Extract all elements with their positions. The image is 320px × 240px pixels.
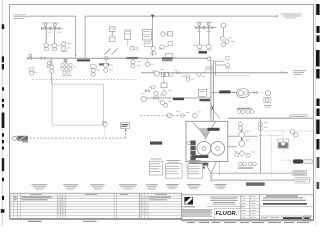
fluor logo diamond bbox=[184, 197, 193, 205]
wire flare header A bbox=[28, 15, 76, 17]
instrument C7 bbox=[162, 88, 166, 96]
pump package box bbox=[186, 121, 228, 161]
continuation label L2 bbox=[63, 184, 78, 189]
right edge mark 2 bbox=[316, 26, 319, 33]
continuation label L5 bbox=[146, 184, 158, 189]
label line2 dest bbox=[293, 70, 306, 75]
instrument box TB1 bbox=[109, 27, 115, 32]
diamond D4 bbox=[180, 113, 184, 117]
left edge mark 5 bbox=[2, 99, 4, 102]
actuator A2 bbox=[54, 24, 57, 29]
instrument circle TC1 bbox=[161, 32, 165, 36]
note box NB0 bbox=[150, 161, 163, 175]
instrument box TB2 bbox=[109, 37, 115, 42]
relay box TB7 bbox=[125, 30, 131, 39]
left edge mark 11 bbox=[2, 158, 4, 171]
right edge mark 3 bbox=[316, 36, 319, 43]
line break slash 1 bbox=[105, 48, 111, 54]
instrument C6 bbox=[145, 58, 149, 66]
continuation label L4 bbox=[119, 184, 137, 189]
instrument box SQ3 bbox=[264, 97, 271, 102]
tank T-1 bbox=[52, 84, 103, 125]
riser cross knot bbox=[211, 105, 220, 119]
instrument circle TC4 bbox=[160, 45, 164, 49]
instrument pair R3 bbox=[258, 122, 262, 130]
wire A stem1 bbox=[45, 30, 47, 43]
logo caption bbox=[183, 206, 195, 207]
label A2 bbox=[51, 22, 59, 25]
revision entry 2 bbox=[14, 199, 167, 200]
diamond R4b bbox=[239, 150, 245, 156]
left edge mark 7 bbox=[2, 113, 5, 129]
dashed riser D7 bbox=[125, 130, 127, 139]
instrument C9 bbox=[226, 63, 231, 68]
actuator B1 bbox=[198, 23, 201, 28]
note N1 text bbox=[14, 15, 29, 19]
manifold A pipe bbox=[41, 27, 63, 29]
label A3 bbox=[61, 50, 68, 53]
note box NB1 bbox=[165, 164, 182, 179]
dotted drop D11 bbox=[282, 131, 284, 153]
node circle N3 bbox=[169, 73, 173, 77]
riser pipe 1 bbox=[210, 60, 212, 121]
instrument FI-B2 bbox=[206, 44, 212, 50]
instrument pair C5 bbox=[131, 60, 135, 68]
revision entry 1 bbox=[14, 197, 171, 198]
instrument cluster R7 bbox=[278, 139, 289, 148]
faint line 2b bbox=[216, 75, 250, 77]
instrument box TB4 bbox=[144, 42, 152, 47]
dotted line D9 bbox=[259, 134, 283, 136]
margin text bottom-left bbox=[28, 221, 42, 222]
valve M7 bbox=[145, 86, 155, 92]
package drop bbox=[210, 172, 212, 181]
node J2 bbox=[105, 57, 108, 60]
dotted line D12 bbox=[281, 159, 293, 161]
node T1 bbox=[51, 58, 53, 84]
riser pipe 3 bbox=[215, 61, 217, 76]
right edge mark 6 bbox=[316, 99, 319, 107]
label box LB6a bbox=[173, 98, 184, 101]
label box LB5 bbox=[199, 51, 208, 53]
right edge mark 4 bbox=[316, 50, 320, 67]
suction line b bbox=[245, 135, 257, 137]
continuation label L1 bbox=[32, 184, 48, 189]
package funnel right bbox=[207, 121, 216, 135]
package nozzle circle bbox=[188, 142, 191, 145]
fluor cell borders bbox=[214, 209, 240, 221]
dashed line D6 bbox=[30, 137, 126, 139]
instrument box N1b bbox=[226, 57, 229, 60]
instrument cluster C3 bbox=[91, 65, 97, 77]
left edge mark 14 bbox=[1, 209, 5, 213]
right edge mark 7 bbox=[316, 109, 319, 117]
instrument pair C4 bbox=[104, 60, 108, 72]
label box BL2 bbox=[295, 178, 309, 183]
main header line 1 bbox=[28, 57, 208, 59]
bottom header 2 bbox=[211, 179, 295, 181]
wire B stem3 bbox=[223, 28, 225, 36]
note box NB2 header bbox=[189, 160, 201, 162]
header line 2 bbox=[141, 72, 288, 74]
suction line c bbox=[228, 146, 237, 148]
note box NB2 bbox=[188, 164, 203, 179]
note box NB0 header bbox=[151, 158, 162, 161]
instrument FI-A1 bbox=[44, 43, 48, 50]
valve A1 bbox=[41, 27, 45, 30]
riser pipe 2 bbox=[212, 60, 214, 121]
actuator B2 bbox=[207, 23, 210, 28]
vessel E1 bbox=[237, 89, 250, 98]
label box M6b bbox=[206, 67, 213, 70]
label B1 bbox=[196, 21, 204, 24]
instrument cluster C0 bbox=[29, 68, 34, 75]
label box LB8 bbox=[120, 123, 129, 129]
node circle N1 bbox=[208, 57, 211, 60]
discharge drop bbox=[260, 118, 262, 173]
wire TB7 stem bbox=[127, 39, 129, 46]
node circle N4 bbox=[141, 96, 146, 101]
tick M6 bbox=[205, 71, 207, 73]
package leg right bbox=[212, 162, 217, 173]
stub S2 bbox=[216, 64, 226, 66]
instrument box SQ2 bbox=[198, 89, 206, 98]
line break slash 2 bbox=[112, 48, 118, 54]
label box LB7 bbox=[219, 90, 230, 93]
left edge mark 1 bbox=[2, 24, 4, 29]
note box NB1 header bbox=[167, 160, 181, 162]
continuation label R3 bbox=[215, 184, 227, 189]
label box LB15 bbox=[290, 115, 307, 118]
revision table grid bbox=[11, 193, 182, 218]
continuation label L3 bbox=[91, 184, 105, 189]
ticks line2 end bbox=[282, 71, 285, 73]
signature column bbox=[240, 195, 260, 221]
pump P-1A bbox=[197, 142, 211, 156]
instrument row R1 bbox=[237, 108, 254, 114]
process line 3 bbox=[146, 97, 210, 99]
instrument FI-B1 bbox=[197, 44, 203, 50]
dashed drop D8 bbox=[186, 162, 188, 172]
instrument FI-A2 bbox=[52, 43, 56, 50]
dotted drop D5 bbox=[103, 127, 105, 138]
vent bracket bbox=[166, 54, 173, 58]
label box LB1 bbox=[77, 59, 90, 61]
dotted line D10 bbox=[263, 130, 312, 132]
instrument cluster B4 bbox=[220, 36, 229, 46]
svg-text:FLUOR.: FLUOR. bbox=[216, 211, 238, 217]
label flare dest bbox=[281, 14, 302, 19]
paper right edge bbox=[315, 0, 317, 226]
label box LB10 bbox=[208, 128, 220, 131]
process line 4b bbox=[249, 92, 254, 94]
valve flag C1 bbox=[47, 58, 51, 68]
left edge mark 2 bbox=[2, 56, 4, 62]
instrument pair TB5 bbox=[130, 46, 138, 50]
process line 4 bbox=[212, 92, 237, 94]
label B2 bbox=[205, 21, 213, 24]
instrument box SQ1 bbox=[161, 83, 167, 88]
instrument column V1 bbox=[239, 130, 245, 146]
pump P-0 bbox=[13, 136, 29, 143]
manifold B pipe bbox=[195, 27, 216, 29]
instrument C12 bbox=[265, 90, 270, 95]
instrument box TC2 bbox=[168, 32, 173, 37]
instrument box TC3 bbox=[168, 42, 172, 46]
package funnel left bbox=[193, 123, 206, 137]
title block frame bbox=[182, 193, 314, 221]
node B tick bbox=[276, 15, 278, 18]
actuator A1 bbox=[44, 24, 47, 29]
arrow C bbox=[151, 15, 155, 19]
valve M9 bbox=[254, 91, 257, 93]
label box LB9 bbox=[150, 142, 162, 145]
left edge mark 4 bbox=[2, 87, 4, 90]
valve B3 bbox=[204, 26, 208, 29]
label box BL3 bbox=[246, 182, 265, 185]
valve B1 bbox=[195, 26, 199, 29]
dashed line D1 bbox=[32, 78, 135, 80]
pump P-1B bbox=[211, 142, 225, 156]
valve A2 bbox=[46, 27, 50, 30]
instrument D4b bbox=[193, 113, 198, 118]
suction line a bbox=[228, 135, 239, 137]
valve M8 bbox=[154, 91, 159, 99]
dotted drop D13 bbox=[270, 135, 272, 177]
arrow A bbox=[75, 55, 77, 58]
drop S3 bbox=[218, 162, 220, 176]
wire drop A bbox=[75, 16, 77, 56]
instrument tag texts bbox=[34, 31, 268, 152]
instrument row R5 bbox=[238, 162, 256, 169]
tick M4 bbox=[174, 57, 176, 59]
instrument pair C11 bbox=[161, 101, 168, 108]
instrument cluster TB6 bbox=[151, 47, 156, 55]
node circle N2 bbox=[154, 71, 159, 76]
instrument pair C4b bbox=[50, 65, 54, 73]
dashed stub D2 bbox=[257, 92, 263, 94]
continuation label R1 bbox=[166, 184, 179, 189]
package leg left bbox=[204, 162, 210, 173]
right edge mark 5 bbox=[316, 69, 319, 79]
label box LB12 bbox=[192, 155, 208, 158]
arrow TB1 bbox=[111, 31, 113, 36]
wire B stem1 bbox=[199, 29, 201, 44]
margin text bottom-right row bbox=[187, 221, 309, 224]
instrument cluster C8 bbox=[186, 75, 190, 81]
margin text bottom-mid bbox=[83, 221, 97, 222]
left edge mark 3 bbox=[2, 64, 4, 70]
label C12 text bbox=[264, 105, 271, 107]
motor column bbox=[190, 141, 195, 162]
valve A3 bbox=[51, 27, 55, 30]
right edge mark 9 bbox=[316, 139, 319, 150]
label pair BL1 bbox=[293, 171, 307, 176]
wire B stem2 bbox=[208, 29, 210, 44]
instrument pair R6 bbox=[290, 130, 298, 137]
wire drop B bbox=[84, 16, 86, 58]
label box LB14 bbox=[189, 166, 205, 168]
instrument sealed C13 bbox=[167, 113, 172, 118]
wire A stem2 bbox=[53, 30, 55, 44]
drain capsule bbox=[293, 159, 303, 163]
continuation label R2 bbox=[187, 184, 201, 189]
relay box TB3 bbox=[142, 30, 151, 40]
address block bbox=[207, 197, 243, 207]
valve M5 bbox=[176, 72, 180, 74]
valve M2 bbox=[41, 57, 45, 60]
right edge mark 8 bbox=[316, 120, 319, 135]
right edge mark 10 bbox=[317, 157, 320, 168]
instrument PI-B3 bbox=[221, 23, 226, 28]
label box LB2 bbox=[99, 63, 109, 65]
label box LB4 bbox=[162, 57, 173, 61]
valve B2 bbox=[199, 26, 203, 29]
instrument pair R2 bbox=[238, 122, 242, 130]
instrument cluster C2 bbox=[61, 63, 77, 76]
davit arm bbox=[200, 128, 212, 141]
wire drop C bbox=[152, 16, 154, 56]
disclaimer paragraph bbox=[182, 209, 213, 217]
paper left edge bbox=[1, 0, 3, 226]
arrow D7 bbox=[125, 129, 127, 132]
stub S1 bbox=[214, 60, 224, 62]
label A1 bbox=[42, 22, 50, 25]
label box LB13 bbox=[189, 163, 208, 166]
instrument C8b bbox=[197, 73, 201, 77]
left edge mark 10 bbox=[2, 147, 4, 150]
title text bbox=[260, 196, 314, 207]
valve A4 bbox=[55, 27, 59, 30]
drawing number row bbox=[260, 216, 314, 221]
valve M3 bbox=[64, 58, 67, 63]
revision table headers bbox=[30, 193, 167, 196]
left edge mark 8 bbox=[2, 133, 4, 137]
instrument pair A3 bbox=[61, 42, 65, 51]
fluor wordmark bbox=[216, 211, 238, 217]
left edge mark 12 bbox=[2, 178, 4, 182]
left edge mark 9 bbox=[2, 140, 4, 143]
left edge mark 6 bbox=[2, 104, 4, 107]
right edge mark 1 bbox=[316, 4, 319, 15]
drain box bbox=[304, 160, 312, 164]
instrument pair R4 bbox=[235, 153, 250, 158]
tank nozzle cluster bbox=[102, 122, 107, 127]
valve B4 bbox=[208, 26, 212, 29]
dashed line D3 bbox=[140, 114, 186, 116]
tick B1 bbox=[235, 172, 237, 174]
label box LB3 bbox=[127, 57, 139, 59]
discharge header bbox=[228, 117, 314, 119]
valve M1 bbox=[27, 54, 31, 60]
label box LB6b bbox=[200, 99, 211, 101]
bottom header 1 bbox=[211, 172, 292, 174]
wire drop SQ1 bbox=[163, 73, 165, 83]
left edge mark 13 bbox=[2, 196, 4, 200]
wire flare header B bbox=[85, 15, 277, 17]
revision sign-off marks bbox=[58, 197, 147, 215]
instrument box pair B2a bbox=[161, 73, 168, 77]
right edge mark 11 bbox=[317, 182, 320, 189]
